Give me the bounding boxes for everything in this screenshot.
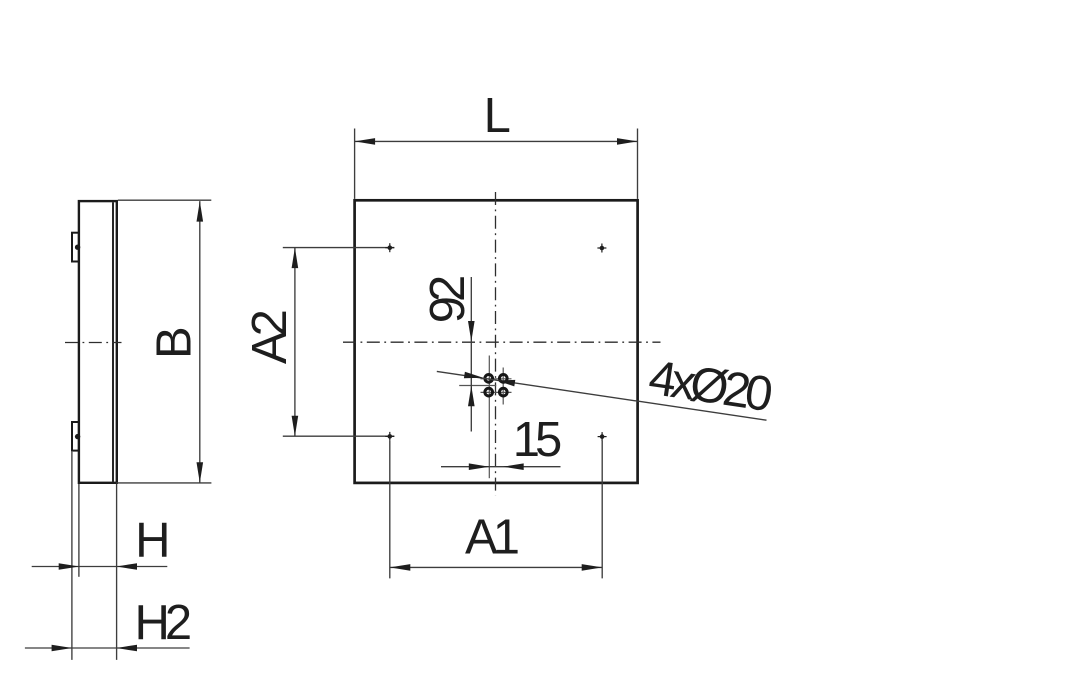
side view centerline xyxy=(65,342,122,344)
A2 extension top xyxy=(283,247,395,249)
4xO20 leader line xyxy=(437,371,767,420)
L dimension line xyxy=(355,140,638,142)
hole mark top-right xyxy=(597,244,606,253)
hole circle top-left xyxy=(485,375,493,383)
H/H2 extension right xyxy=(116,484,118,660)
4xO20 leader arrow right xyxy=(497,380,515,387)
92 arrow down xyxy=(468,321,475,342)
B extension line top xyxy=(118,199,211,201)
H2 arrow left xyxy=(52,645,73,652)
H2 arrow right xyxy=(117,645,138,652)
hole row centerline top xyxy=(481,378,512,380)
B arrow up xyxy=(197,201,204,222)
B extension line bottom xyxy=(116,482,211,484)
front view horizontal centerline xyxy=(343,341,661,343)
A1 extension left xyxy=(389,441,391,578)
hole circle bottom-left xyxy=(485,388,493,396)
svg-text:L: L xyxy=(484,89,511,143)
A1 arrow right xyxy=(582,564,603,571)
hole mark bottom-right xyxy=(598,432,607,441)
L arrow right xyxy=(617,138,638,145)
A1 arrow left xyxy=(390,564,411,571)
H2 extension left xyxy=(71,452,73,660)
clip top xyxy=(72,233,80,262)
A2 arrow up xyxy=(292,248,299,269)
hole mark bottom-left xyxy=(385,432,394,441)
L extension right xyxy=(637,129,639,199)
B dimension line xyxy=(199,201,201,483)
svg-text:92: 92 xyxy=(421,277,475,323)
hole row centerline bottom xyxy=(481,391,512,393)
hole circle top-right xyxy=(499,375,507,383)
L arrow left xyxy=(355,138,376,145)
clip bottom xyxy=(72,422,80,451)
svg-text:H: H xyxy=(135,514,170,568)
H dimension line xyxy=(32,566,168,568)
A2 dimension line xyxy=(294,248,296,437)
A2 extension bottom xyxy=(283,435,395,437)
hole column centerline left xyxy=(488,356,490,479)
15 arrow left xyxy=(469,463,490,470)
H arrow left xyxy=(59,563,79,570)
L extension left xyxy=(354,129,356,199)
side view plate outline xyxy=(79,201,117,483)
front view vertical centerline xyxy=(495,192,497,495)
15 arrow right xyxy=(503,463,524,470)
15 dimension line xyxy=(441,466,561,468)
svg-text:15: 15 xyxy=(513,413,561,467)
H extension left xyxy=(78,484,80,577)
H arrow right xyxy=(117,563,138,570)
92 arrow up xyxy=(468,386,475,407)
92 dimension line xyxy=(470,277,472,432)
hole circle bottom-right xyxy=(499,388,507,396)
svg-text:H2: H2 xyxy=(134,596,189,650)
B arrow down xyxy=(197,462,204,483)
front view plate outline xyxy=(355,200,638,483)
A1 dimension line xyxy=(390,566,602,568)
svg-text:A2: A2 xyxy=(243,311,297,364)
A2 arrow down xyxy=(292,416,299,437)
hole column centerline right xyxy=(502,368,504,405)
svg-text:B: B xyxy=(148,326,202,359)
hole mark top-left xyxy=(385,243,394,252)
H2 dimension line xyxy=(25,647,190,649)
4xO20 leader arrow left xyxy=(464,372,483,379)
svg-text:A1: A1 xyxy=(465,511,518,565)
A1 extension right xyxy=(601,441,603,578)
hole cluster mid tick (92 extension) xyxy=(459,385,496,387)
